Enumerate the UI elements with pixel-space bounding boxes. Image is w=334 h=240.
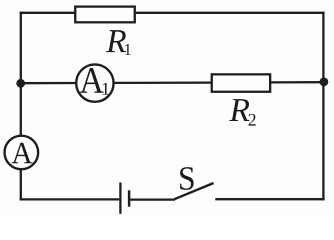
label S [180, 167, 194, 190]
label R1 [106, 30, 126, 52]
wire: left wire lower (ammeter A to bottom corner) [20, 170, 22, 201]
wire: bottom wire from battery to switch pivot [130, 198, 175, 200]
wire: top wire right segment [135, 12, 324, 14]
battery: long plate (positive) [119, 183, 121, 214]
node B (right junction dot) [320, 78, 329, 87]
wire: left wire upper (top corner through node A to ammeter A) [20, 12, 22, 136]
battery: short plate (negative) [128, 190, 131, 206]
wire: right wire [322, 12, 324, 201]
resistor R1 [75, 7, 135, 23]
wire: middle wire from ammeter A1 to resistor R2 [114, 81, 212, 84]
wire: bottom wire from switch contact to right corner [215, 198, 324, 200]
ammeter A [5, 136, 39, 170]
resistor R2 [212, 74, 270, 91]
wire: middle wire from node A to ammeter A1 [21, 82, 77, 84]
wire: bottom wire from left corner to battery [20, 198, 120, 200]
node A (left junction dot) [16, 79, 25, 88]
label R2 [229, 99, 249, 121]
ammeter A1 [76, 64, 113, 101]
wire: middle wire from resistor R2 to node B [271, 81, 324, 84]
wire: top wire left segment [20, 12, 75, 14]
switch S: blade [174, 183, 213, 199]
